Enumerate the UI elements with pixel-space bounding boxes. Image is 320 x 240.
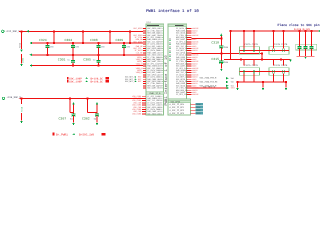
svg-text:C304: C304	[65, 38, 73, 42]
svg-text:C318: C318	[211, 41, 219, 45]
svg-text:CLK_RE: CLK_RE	[136, 51, 144, 54]
svg-text:VDDQ_M: VDDQ_M	[136, 62, 144, 65]
svg-text:B+1V8 B+1V0: B+1V8 B+1V0	[294, 28, 310, 31]
svg-text:SOC_GPIO: SOC_GPIO	[133, 27, 143, 30]
svg-text:B+1V8_SC: B+1V8_SC	[91, 80, 104, 83]
svg-text:C308: C308	[90, 38, 98, 42]
svg-text:SOC_JTAG_TMS_R: SOC_JTAG_TMS_R	[200, 77, 218, 80]
svg-text:10n: 10n	[75, 45, 80, 48]
svg-text:+1V8: +1V8	[21, 106, 24, 112]
svg-text:10n: 10n	[224, 46, 229, 49]
svg-text:C317A C317B: C317A C317B	[274, 43, 288, 46]
svg-text:C307: C307	[59, 117, 67, 121]
svg-text:+1V2_SOC_S: +1V2_SOC_S	[6, 30, 21, 33]
svg-text:10n: 10n	[101, 45, 106, 48]
svg-text:GP03: GP03	[196, 112, 200, 115]
svg-text:VDDQ_M: VDDQ_M	[136, 71, 144, 74]
svg-text:C317A C317B: C317A C317B	[245, 43, 259, 46]
svg-text:TMS: TMS	[231, 77, 234, 80]
svg-text:PWB1 interface 1 of 10: PWB1 interface 1 of 10	[146, 9, 199, 14]
svg-text:IF_SPI_CLK: IF_SPI_CLK	[176, 93, 188, 96]
svg-text:C302: C302	[82, 117, 90, 121]
svg-text:+1V2: +1V2	[19, 42, 22, 48]
svg-text:C305: C305	[83, 57, 91, 61]
svg-text:BC07: BC07	[158, 87, 163, 90]
svg-text:C324: C324	[39, 38, 47, 42]
svg-text:GP00: GP00	[196, 103, 200, 106]
svg-text:1V2K: 1V2K	[21, 57, 24, 63]
svg-text:VDD33C: VDD33C	[192, 93, 198, 96]
svg-text:VDD33C: VDD33C	[192, 34, 198, 37]
svg-text:C309: C309	[116, 38, 124, 42]
svg-text:B+_PWR1: B+_PWR1	[56, 134, 68, 137]
svg-text:10n: 10n	[126, 45, 131, 48]
svg-text:SOC_JTAG_TCK_RC: SOC_JTAG_TCK_RC	[200, 81, 219, 84]
svg-text:C315: C315	[211, 57, 219, 61]
svg-text:10n: 10n	[224, 61, 229, 64]
svg-text:C301: C301	[58, 57, 66, 61]
svg-text:SOC_NET_X: SOC_NET_X	[125, 80, 136, 83]
svg-text:C317A C317B: C317A C317B	[274, 64, 288, 67]
svg-text:GP01: GP01	[196, 106, 200, 109]
svg-text:Place close to SOC pin: Place close to SOC pin	[278, 23, 320, 27]
svg-text:VDD33: VDD33	[192, 49, 197, 52]
svg-text:B+SOC_1V8: B+SOC_1V8	[79, 134, 94, 137]
svg-text:C317A C317B: C317A C317B	[245, 64, 259, 67]
svg-text:PWB1 Interface 1 of 10: PWB1 Interface 1 of 10	[164, 55, 169, 106]
svg-text:GP02: GP02	[196, 109, 200, 112]
svg-text:U1A: U1A	[147, 21, 152, 24]
svg-text:10n: 10n	[50, 45, 55, 48]
svg-text:A_SOC_IF_GP3: A_SOC_IF_GP3	[170, 112, 185, 115]
svg-text:VDD_CORE: VDD_CORE	[132, 112, 142, 115]
svg-text:SOC_1V8P: SOC_1V8P	[69, 80, 82, 83]
svg-text:+1V8_SOC_S: +1V8_SOC_S	[7, 96, 22, 99]
